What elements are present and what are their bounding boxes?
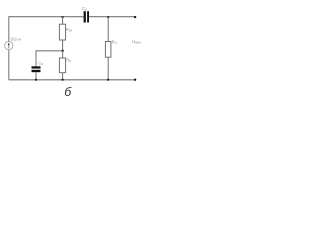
wire resistor Rн to bottom rail [107,57,109,80]
svg-text:Rи: Rи [66,57,71,63]
wire top rail to resistor Rн [107,17,109,42]
wire node A to resistor Rси [62,17,64,25]
current source I1 circle [5,41,13,49]
wire bottom rail [9,79,135,81]
current source arrow [8,42,10,48]
wire top rail right segment [89,16,135,18]
wire top rail left segment [9,16,84,18]
svg-text:б: б [64,85,72,99]
capacitor Ср plate left [84,11,86,22]
capacitor Си plate top [32,66,41,68]
svg-text:Cр: Cр [82,6,87,12]
svg-text:Rси: Rси [66,27,73,33]
wire left vertical upper [8,16,10,41]
wire left vertical lower [8,50,10,80]
resistor Rн [105,42,111,58]
node A junction dot on top rail [61,16,63,18]
wire node B left to capacitor branch [36,51,63,67]
junction dot Rн bottom [107,79,109,81]
svg-text:Uвых: Uвых [132,39,142,45]
resistor Rи [59,58,65,73]
junction dot right branch top [107,16,109,18]
svg-text:Cи: Cи [38,60,43,66]
capacitor Ср plate right [87,11,89,22]
capacitor Си plate bottom [32,70,41,72]
junction dot Rи bottom [62,79,64,81]
output terminal dot top [134,16,136,18]
wire node B to resistor Rи [62,51,64,58]
wire resistor Rи to bottom rail [62,73,64,80]
wire Rси to node B [62,40,64,51]
output terminal dot bottom [134,79,136,81]
resistor Rси [59,24,65,40]
node B junction dot [61,49,64,52]
wire capacitor Си to bottom rail [35,72,37,80]
svg-text:SUзи: SUзи [10,36,21,41]
junction dot capacitor bottom [35,79,37,81]
svg-text:Rн: Rн [112,39,117,45]
